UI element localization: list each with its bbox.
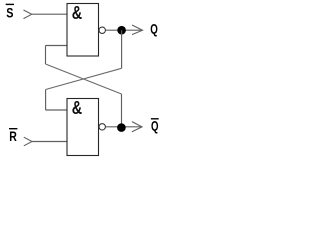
wire feedback left vertical to lower gate input (45, 90, 47, 111)
junction node Qbar (117, 123, 126, 132)
svg-text:S: S (6, 5, 13, 21)
svg-text:R: R (9, 128, 17, 144)
nand gate U1 body (67, 4, 99, 57)
svg-text:&: & (72, 98, 82, 118)
wire top gate input 2 horizontal (46, 45, 67, 47)
wire R input (32, 141, 67, 143)
input port arrow S (24, 10, 32, 19)
label S-bar overbar (6, 3, 14, 5)
wire feedback left vertical from top gate input (45, 46, 47, 65)
input port arrow R (24, 137, 32, 146)
wire feedback diagonal Q to lower gate (46, 68, 122, 89)
label Q-bar overbar (151, 118, 159, 120)
output port arrow Qbar (132, 122, 142, 132)
junction node Q (117, 26, 126, 35)
wire feedback riser from Q junction down (121, 30, 123, 68)
wire Q output horizontal (106, 29, 142, 31)
output port arrow Q (132, 25, 143, 35)
nand gate U1 inversion bubble (99, 27, 105, 33)
nand gate U2 body (67, 99, 99, 156)
wire S input (32, 13, 67, 15)
wire feedback riser to Qbar junction (121, 94, 123, 128)
svg-text:&: & (72, 3, 82, 23)
wire feedback diagonal Qbar to upper gate (46, 64, 122, 94)
svg-text:Q: Q (150, 21, 158, 37)
wire lower gate input 1 horizontal (46, 109, 67, 111)
label R-bar overbar (9, 128, 17, 130)
nand gate U2 inversion bubble (99, 124, 105, 130)
wire Qbar output horizontal (106, 126, 141, 128)
svg-text:Q: Q (151, 118, 159, 134)
